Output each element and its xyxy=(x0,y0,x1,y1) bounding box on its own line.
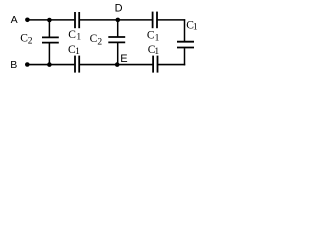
node B terminal dot xyxy=(25,62,30,67)
node D junction dot xyxy=(116,18,121,23)
capacitor C1 top-right value label xyxy=(147,30,160,44)
capacitor C1 far-right plates xyxy=(177,42,194,48)
capacitor C1 far-right value label xyxy=(186,19,198,32)
capacitor C1 top-left value label xyxy=(68,29,81,43)
capacitor C1 bottom-left plates xyxy=(75,56,79,73)
capacitor C1 bottom-right value label xyxy=(148,44,160,57)
wire middle C2 branch upper (D to cap) xyxy=(117,20,119,37)
wire top from C1 top-left to C1 top-right xyxy=(80,19,153,21)
svg-text:1: 1 xyxy=(154,47,159,57)
capacitor C2 left plates xyxy=(42,37,59,42)
svg-text:1: 1 xyxy=(193,22,198,32)
junction dot bottom-left branch xyxy=(47,62,52,67)
capacitor C1 top-left plates xyxy=(75,12,79,28)
svg-text:1: 1 xyxy=(76,33,81,43)
capacitor C2 middle value label xyxy=(90,33,103,47)
capacitor C1 top-right plates xyxy=(153,12,157,29)
node E junction dot xyxy=(115,62,120,67)
svg-text:A: A xyxy=(11,14,18,26)
capacitor C2 left value label xyxy=(20,33,33,47)
wire top from A to C1 top-left xyxy=(27,19,74,21)
svg-text:2: 2 xyxy=(28,37,33,47)
wire top from C1 top-right to right corner xyxy=(157,19,185,21)
capacitor C1 bottom-right plates xyxy=(153,56,157,73)
svg-text:C: C xyxy=(90,33,98,45)
wire right vertical upper segment xyxy=(184,19,186,41)
wire right vertical lower segment xyxy=(184,48,186,65)
wire bottom from C1 bottom-left to C1 bottom-right xyxy=(80,64,153,66)
junction dot top-left branch xyxy=(47,18,52,23)
svg-text:1: 1 xyxy=(75,47,80,57)
wire bottom from C1 bottom-right to right corner xyxy=(158,64,186,66)
capacitor C2 middle plates xyxy=(108,37,125,42)
wire middle C2 branch lower (cap to E) xyxy=(117,43,119,65)
svg-text:B: B xyxy=(10,59,17,71)
wire bottom from B to C1 bottom-left xyxy=(27,64,74,66)
svg-text:1: 1 xyxy=(155,34,160,44)
node A terminal dot xyxy=(25,18,30,23)
capacitor C1 bottom-left value label xyxy=(68,44,80,57)
svg-text:2: 2 xyxy=(97,37,102,47)
wire left C2 branch lower xyxy=(48,43,50,64)
svg-text:E: E xyxy=(120,53,127,65)
wire left C2 branch upper xyxy=(48,20,50,37)
svg-text:D: D xyxy=(115,2,123,14)
svg-text:C: C xyxy=(68,29,76,41)
